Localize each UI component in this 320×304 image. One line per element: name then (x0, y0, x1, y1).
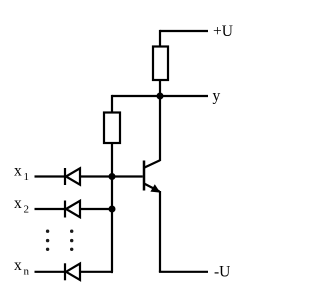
diode Dn cathode bar (64, 263, 66, 280)
svg-text:2: 2 (24, 204, 30, 216)
wire y rail (112, 95, 208, 97)
node junction at y (157, 93, 164, 100)
wire input x2 (35, 208, 65, 210)
wire R1 to node y (159, 80, 161, 96)
+U rail wire (160, 30, 208, 32)
wire input xn (35, 271, 65, 273)
svg-text:-U: -U (214, 264, 230, 281)
diode D1 cathode bar (64, 168, 66, 185)
transistor Q1 base bar (143, 161, 146, 191)
wire x1 diode to bus (80, 175, 112, 177)
svg-text:1: 1 (24, 171, 30, 183)
diode D1 triangle (66, 168, 80, 184)
svg-text:+U: +U (213, 23, 233, 40)
wire y-rail corner to resistor R2 (111, 95, 113, 113)
diode Dn triangle (66, 264, 80, 280)
wire emitter vertical (159, 191, 161, 272)
wire xn diode to bus (80, 271, 112, 273)
ellipsis dots column 2 (70, 230, 73, 252)
transistor Q1 emitter arrowhead (150, 184, 160, 192)
resistor R1 (153, 47, 168, 81)
wire base (112, 175, 143, 177)
wire input x1 (35, 175, 65, 177)
resistor R2 (104, 113, 120, 144)
svg-text:y: y (213, 88, 221, 105)
node junction x2 (109, 206, 116, 213)
wire common diode bus vertical (112, 143, 113, 272)
wire collector vertical (159, 96, 161, 161)
ellipsis dots column 1 (46, 230, 49, 252)
svg-text:x: x (14, 257, 22, 274)
wire -U rail (159, 271, 208, 273)
diode D2 triangle (66, 201, 80, 217)
wire +U to resistor R1 (159, 30, 161, 47)
diode D2 cathode bar (64, 201, 66, 218)
transistor Q1 emitter stroke (144, 184, 160, 192)
transistor Q1 collector stroke (144, 160, 160, 168)
svg-text:n: n (24, 266, 30, 278)
node junction x1/base (109, 173, 116, 180)
svg-text:x: x (14, 195, 22, 212)
wire x2 diode to bus (80, 208, 112, 210)
svg-text:x: x (14, 163, 22, 180)
